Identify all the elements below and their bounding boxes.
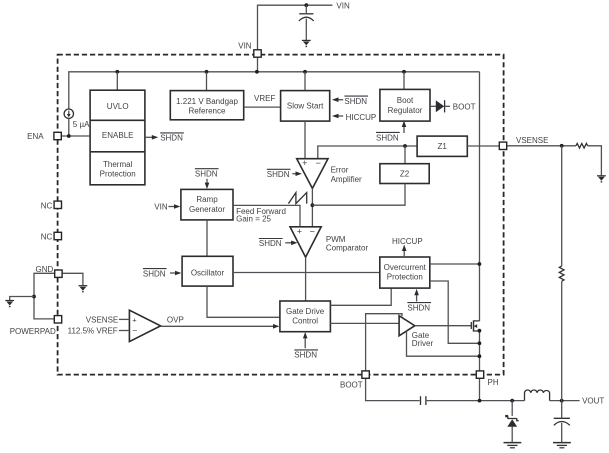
- label PWM Comparator: [326, 235, 369, 253]
- pin NC (lower): [41, 232, 62, 241]
- node feedback divider junction: [560, 144, 564, 148]
- wire overcurrent to right rail: [430, 263, 480, 265]
- node gate driver return junction: [478, 354, 482, 358]
- svg-text:POWERPAD: POWERPAD: [10, 327, 56, 336]
- node overcurrent rail junction: [478, 262, 482, 266]
- wire ramp generator to oscillator: [206, 220, 208, 256]
- block Boot Regulator: [380, 89, 430, 121]
- svg-text:SHDN: SHDN: [344, 97, 367, 106]
- pin POWERPAD: [10, 316, 62, 336]
- wire PH node to catch diode: [511, 401, 513, 416]
- svg-text:UVLO: UVLO: [107, 102, 129, 111]
- block Z2: [380, 164, 429, 184]
- ground arrow for C1: [302, 40, 311, 47]
- block Overcurrent Protection: [380, 257, 430, 288]
- pin PH: [476, 371, 499, 387]
- arrow SHDN into Slow Start: [332, 97, 343, 102]
- svg-text:Oscillator: Oscillator: [191, 268, 225, 277]
- wire GND pin to local ground: [62, 273, 83, 285]
- wire output node to output capacitor: [561, 401, 563, 418]
- node catch diode junction: [510, 399, 514, 403]
- arrow SHDN into oscillator: [170, 271, 181, 276]
- arrow SHDN into gate drive control bottom: [303, 332, 308, 348]
- svg-text:Reference: Reference: [189, 107, 226, 116]
- label SHDN (gate drive control): [294, 350, 318, 360]
- node PH bottom junction: [478, 399, 482, 403]
- pin ENA: [27, 132, 61, 141]
- wire rail to slow start: [304, 72, 306, 91]
- node input cap junction: [304, 3, 308, 7]
- arrow SHDN into overcurrent protection bottom: [414, 289, 419, 302]
- arrow OVP output to gate drive control: [161, 324, 280, 329]
- svg-text:HICCUP: HICCUP: [346, 113, 377, 122]
- capacitor C3 output (polarized): [554, 418, 570, 442]
- label SHDN (enable output): [160, 133, 184, 142]
- op-amp U1 Error Amplifier: [297, 158, 328, 188]
- pin GND: [36, 265, 63, 278]
- svg-text:BOOT: BOOT: [453, 102, 476, 111]
- node ENA junction: [67, 134, 71, 138]
- wire VREF bandgap to slow start: [244, 106, 281, 108]
- svg-text:OVP: OVP: [167, 315, 184, 324]
- svg-text:−: −: [310, 226, 315, 236]
- svg-text:VIN: VIN: [154, 202, 168, 211]
- IC boundary (dashed): [58, 55, 504, 375]
- wire R1 to ground arrow: [588, 146, 602, 176]
- arrow HICCUP into Slow Start: [332, 114, 343, 119]
- arrow VIN into ramp generator: [168, 204, 180, 209]
- wire PWM output to gate drive control: [305, 257, 307, 301]
- wire inductor to VOUT: [550, 400, 580, 402]
- svg-text:Slow Start: Slow Start: [287, 102, 324, 111]
- svg-text:+: +: [132, 315, 137, 324]
- svg-text:Error: Error: [331, 165, 349, 174]
- wire rail to boot regulator: [403, 72, 405, 90]
- op-amp U2 PWM Comparator: [290, 226, 321, 257]
- label SHDN (oscillator): [143, 269, 167, 279]
- pin BOOT: [340, 371, 369, 389]
- node COMP junction: [311, 203, 315, 207]
- wire catch diode to ground: [511, 426, 513, 442]
- svg-text:Amplifier: Amplifier: [331, 175, 362, 184]
- label Feed Forward Gain = 25: [236, 207, 286, 223]
- label SHDN (error amp): [267, 169, 291, 179]
- block Oscillator: [182, 256, 233, 286]
- wire BOOT pin to bootstrap capacitor: [366, 378, 420, 400]
- wire rail to UVLO: [116, 72, 118, 90]
- label SHDN (PWM): [259, 239, 283, 249]
- svg-text:ENABLE: ENABLE: [102, 131, 134, 140]
- arrow SHDN into error amp: [292, 171, 302, 176]
- wire boot regulator to diode: [430, 105, 436, 107]
- wire bootstrap capacitor to PH node: [427, 400, 480, 402]
- svg-text:Protection: Protection: [387, 273, 423, 282]
- wire VIN top feed: [258, 5, 333, 50]
- svg-text:+: +: [302, 158, 307, 168]
- resistor R1 top feedback: [576, 143, 588, 148]
- wire PH pin to output node: [480, 378, 525, 400]
- wire current source to ENA net: [68, 118, 70, 136]
- svg-text:Z1: Z1: [438, 142, 448, 151]
- wire error amp inverting input to Z network: [318, 146, 417, 158]
- svg-text:SHDN: SHDN: [160, 133, 183, 142]
- label SHDN (ramp): [195, 169, 219, 179]
- svg-text:VREF: VREF: [254, 94, 275, 103]
- inductor L1: [525, 390, 550, 401]
- capacitor C1 input (polarized): [299, 5, 314, 40]
- svg-text:Overcurrent: Overcurrent: [384, 263, 427, 272]
- wire Z junction to Z2: [404, 146, 406, 164]
- svg-text:VSENSE: VSENSE: [516, 136, 548, 145]
- svg-text:BOOT: BOOT: [340, 380, 363, 389]
- arrow SHDN into PWM comparator: [285, 241, 297, 246]
- svg-text:SHDN: SHDN: [267, 170, 290, 179]
- svg-text:ENA: ENA: [27, 132, 44, 141]
- pin NC (upper): [41, 201, 62, 210]
- wire COMP to Z2 bottom: [312, 184, 405, 206]
- label SHDN (boot regulator): [376, 132, 400, 142]
- pin VSENSE: [499, 136, 548, 149]
- node Q1 source junction: [478, 329, 482, 333]
- ground arrow (R1): [597, 175, 606, 182]
- wire gate drive control to gate driver: [330, 322, 398, 324]
- comparator U3 OVP: [129, 310, 160, 341]
- svg-text:SHDN: SHDN: [407, 303, 430, 312]
- wire error amp output to PWM comparator: [311, 188, 313, 226]
- svg-text:Gain = 25: Gain = 25: [236, 215, 271, 224]
- ground arrow (GND pin): [79, 285, 88, 292]
- svg-text:HICCUP: HICCUP: [392, 237, 423, 246]
- capacitor C2 bootstrap: [421, 396, 426, 405]
- node rail junctions: [115, 70, 406, 74]
- label Gate Driver: [412, 331, 434, 348]
- wire VIN pin to internal rail: [257, 57, 259, 72]
- wire VSENSE pin to feedback divider: [507, 145, 576, 147]
- block Slow Start: [281, 91, 330, 122]
- diode D1 catch (schottky): [505, 415, 518, 427]
- node Z junction: [403, 144, 407, 148]
- svg-text:SHDN: SHDN: [143, 269, 166, 278]
- wire 112.5% VREF stub into OVP: [119, 330, 129, 332]
- sawtooth waveform icon: [288, 193, 306, 204]
- wire BOOT pin to gate driver supply: [366, 314, 402, 372]
- wire gate drive control to overcurrent protection: [330, 288, 391, 305]
- wire GND network to system ground: [10, 297, 34, 301]
- svg-text:−: −: [132, 326, 137, 336]
- svg-text:−: −: [316, 158, 321, 168]
- svg-text:112.5% VREF: 112.5% VREF: [68, 327, 118, 336]
- svg-text:Z2: Z2: [400, 170, 410, 179]
- arrow ENABLE to SHDN: [145, 135, 158, 140]
- wire Z1 to VSENSE pin: [467, 145, 499, 147]
- current source 5uA: [64, 109, 73, 118]
- wire slow start to error amp +: [304, 121, 306, 158]
- wire ramp output to PWM + input: [233, 205, 300, 226]
- wire gate driver output to Q1 gate: [415, 325, 471, 327]
- node overcurrent sense junction: [478, 341, 482, 345]
- svg-text:Boot: Boot: [397, 96, 414, 105]
- node GND network junction: [32, 295, 36, 299]
- label SHDN (slow start): [344, 96, 368, 106]
- svg-text:Driver: Driver: [412, 339, 434, 348]
- resistor R2 lower feedback: [559, 266, 564, 281]
- svg-text:GND: GND: [36, 265, 54, 274]
- svg-text:+: +: [297, 227, 302, 237]
- label Error Amplifier: [331, 165, 362, 184]
- block Ramp Generator: [181, 189, 233, 220]
- wire overcurrent lower sense to PH rail: [430, 281, 480, 343]
- svg-text:1.221 V Bandgap: 1.221 V Bandgap: [176, 97, 238, 106]
- block Gate Drive Control: [280, 301, 331, 332]
- svg-text:Regulator: Regulator: [388, 106, 423, 115]
- wire GND pin to POWERPAD: [34, 273, 55, 319]
- block 1.221 V Bandgap Reference: [170, 91, 243, 120]
- arrow SHDN into boot regulator: [402, 121, 407, 133]
- diode D2 boot: [436, 100, 450, 112]
- ground (catch diode): [504, 443, 522, 448]
- svg-text:Thermal: Thermal: [103, 160, 133, 169]
- svg-text:5 µA: 5 µA: [73, 120, 90, 129]
- wire gate driver return to PH rail: [407, 331, 480, 357]
- label SHDN (overcurrent): [407, 303, 431, 313]
- svg-text:SHDN: SHDN: [195, 169, 218, 178]
- svg-text:SHDN: SHDN: [259, 239, 282, 248]
- svg-text:PH: PH: [488, 378, 499, 387]
- buffer U4 Gate Driver: [399, 316, 415, 336]
- svg-text:VSENSE: VSENSE: [86, 315, 118, 324]
- svg-text:SHDN: SHDN: [294, 351, 317, 360]
- svg-text:PWM: PWM: [326, 235, 346, 244]
- svg-text:Generator: Generator: [189, 205, 225, 214]
- svg-text:Control: Control: [292, 317, 318, 326]
- wire divider junction down to R2: [561, 146, 563, 266]
- arrow HICCUP from overcurrent protection: [402, 245, 407, 257]
- arrow SHDN into ramp generator top: [205, 179, 210, 189]
- svg-text:NC: NC: [41, 201, 53, 210]
- pin VIN: [238, 42, 261, 58]
- svg-text:VIN: VIN: [238, 42, 252, 51]
- wire oscillator bottom to gate drive control: [207, 286, 280, 317]
- svg-text:Protection: Protection: [100, 170, 136, 179]
- wire rail to bandgap: [206, 72, 208, 91]
- svg-text:VOUT: VOUT: [582, 397, 604, 406]
- wire right rail VIN to Q1 drain: [479, 72, 481, 321]
- svg-text:VIN: VIN: [336, 1, 350, 10]
- svg-text:Gate Drive: Gate Drive: [286, 307, 325, 316]
- ground (output capacitor): [553, 443, 571, 448]
- transistor Q1 power MOSFET: [471, 320, 479, 331]
- block Z1: [417, 136, 467, 156]
- wire ENA pin to ENABLE: [61, 135, 90, 137]
- wire R2 to VOUT node: [561, 281, 563, 400]
- wire oscillator to overcurrent protection: [233, 272, 380, 274]
- svg-text:SHDN: SHDN: [376, 134, 399, 143]
- svg-text:NC: NC: [41, 233, 53, 242]
- svg-text:Comparator: Comparator: [326, 244, 369, 253]
- node output cap junction: [560, 399, 564, 403]
- ground arrow (system): [5, 300, 14, 307]
- wire internal VIN rail: [69, 72, 480, 109]
- wire VSENSE stub into OVP: [119, 318, 129, 320]
- svg-text:Ramp: Ramp: [196, 195, 218, 204]
- block UVLO / ENABLE / Thermal Protection: [90, 90, 145, 185]
- wire Q1 source to PH pin: [479, 332, 481, 371]
